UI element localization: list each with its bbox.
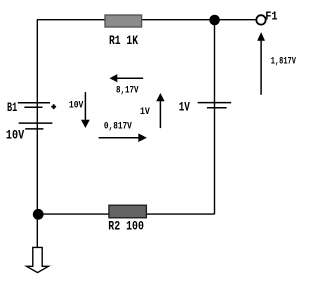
node bottom xyxy=(33,209,44,220)
ground xyxy=(27,247,49,272)
wire left xyxy=(36,20,38,215)
svg-text:8,17V: 8,17V xyxy=(116,85,139,97)
arrow 10V xyxy=(69,92,90,128)
wire bottom xyxy=(37,213,214,215)
svg-text:10V: 10V xyxy=(6,128,24,143)
svg-text:1,817V: 1,817V xyxy=(271,56,297,68)
svg-text:1V: 1V xyxy=(179,99,190,114)
wire ground stem xyxy=(36,214,38,247)
wire right xyxy=(214,20,216,214)
battery B1 xyxy=(6,100,56,143)
arrow 1V xyxy=(140,93,165,128)
arrow 0,817V xyxy=(99,121,147,142)
terminal F1 xyxy=(256,9,277,24)
battery 1V (right cell) xyxy=(179,99,232,114)
svg-text:B1: B1 xyxy=(7,100,17,115)
svg-text:R1 1K: R1 1K xyxy=(109,33,138,48)
svg-text:10V: 10V xyxy=(69,99,84,111)
resistor R2 xyxy=(108,205,146,233)
svg-text:F1: F1 xyxy=(265,9,277,23)
arrow 8,17V xyxy=(110,74,144,96)
svg-text:0,817V: 0,817V xyxy=(104,121,132,133)
node top xyxy=(209,15,220,26)
svg-text:1V: 1V xyxy=(140,106,150,118)
wire top xyxy=(37,19,256,21)
resistor R1 xyxy=(105,15,142,48)
arrow 1,817V xyxy=(257,32,296,95)
svg-text:R2 100: R2 100 xyxy=(108,218,144,233)
